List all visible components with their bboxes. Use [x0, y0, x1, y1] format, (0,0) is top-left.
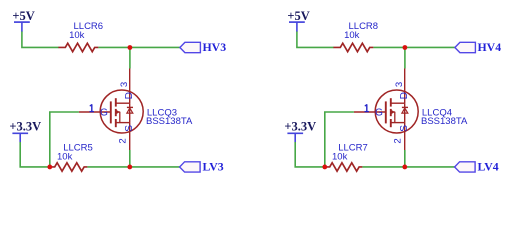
label LLCR5 [63, 142, 93, 153]
label LLCR7 [338, 142, 368, 153]
svg-text:+3.3V: +3.3V [284, 120, 316, 134]
pin name S of LLCQ3 [124, 125, 135, 132]
value 10k (LLCR5) [57, 152, 73, 163]
value 10k (LLCR7) [332, 152, 348, 163]
power symbol +5V (LLCQ4 drain pull-up) [287, 9, 309, 32]
label LLCQ3 [147, 107, 177, 118]
pin name S of LLCQ4 [399, 125, 410, 132]
junction node LV3 [127, 165, 132, 170]
junction node LV4 [402, 165, 407, 170]
label LLCR6 [74, 21, 104, 32]
pin name D of LLCQ4 [399, 92, 410, 99]
svg-text:10k: 10k [69, 30, 85, 41]
resistor LLCR8 [333, 43, 373, 51]
svg-text:2: 2 [117, 138, 128, 143]
svg-text:3: 3 [119, 82, 130, 87]
net flag LV3 [180, 162, 201, 172]
svg-text:S: S [399, 125, 410, 132]
wire +3.3V to gate branch of LLCQ3 [20, 142, 50, 167]
svg-text:HV4: HV4 [478, 40, 502, 54]
wire node HV3 to LLCQ3 drain [129, 48, 131, 69]
wire node HV4 to flag HV4 [405, 46, 455, 48]
value 10k (LLCR8) [344, 30, 360, 41]
junction node HV4 [403, 45, 408, 50]
wire node LV3 to flag LV3 [130, 166, 180, 168]
pin name D of LLCQ3 [124, 92, 135, 99]
wire LLCR7 to node LV4 [362, 166, 404, 168]
svg-text:LV4: LV4 [478, 160, 499, 174]
wire node HV4 to LLCQ4 drain [404, 48, 406, 69]
net label LV4 [478, 160, 499, 174]
svg-text:S: S [124, 125, 135, 132]
wire LLCR8 to node HV4 [373, 46, 405, 48]
wire LLCR5 to node LV3 [87, 166, 129, 168]
svg-text:10k: 10k [332, 152, 348, 163]
transistor LLCQ4 BSS138TA [354, 69, 418, 151]
label LLCQ4 [422, 107, 452, 118]
pin 1 (gate) of LLCQ4 [365, 104, 369, 111]
svg-text:3: 3 [394, 82, 405, 87]
junction node HV3 [127, 45, 132, 50]
svg-text:+5V: +5V [12, 9, 34, 23]
net flag HV3 [180, 42, 201, 52]
wire gate branch to LLCQ3 gate [50, 112, 79, 167]
net flag HV4 [455, 42, 476, 52]
svg-text:D: D [399, 92, 410, 99]
wire +5V to LLCR6 [22, 32, 59, 48]
resistor LLCR6 [58, 43, 98, 51]
svg-text:+3.3V: +3.3V [9, 120, 41, 134]
pin name G of LLCQ3 [100, 107, 108, 118]
svg-text:10k: 10k [57, 152, 73, 163]
wire LLCQ3 source to node LV3 [129, 150, 131, 167]
power symbol +3.3V (LLCQ3 gate pull-up) [9, 120, 41, 143]
resistor LLCR7 [325, 163, 362, 171]
net flag LV4 [455, 162, 476, 172]
svg-text:D: D [124, 92, 135, 99]
power symbol +5V (LLCQ3 drain pull-up) [12, 9, 34, 32]
wire gate branch to LLCQ4 gate [325, 112, 354, 167]
pin 2 (source) of LLCQ4 [392, 138, 403, 143]
svg-text:+5V: +5V [287, 9, 309, 23]
svg-text:BSS138TA: BSS138TA [421, 116, 468, 127]
transistor LLCQ3 BSS138TA [79, 69, 143, 151]
wire +5V to LLCR8 [297, 32, 334, 48]
svg-text:G: G [100, 107, 108, 118]
svg-text:LV3: LV3 [203, 160, 224, 174]
svg-text:G: G [375, 107, 383, 118]
pin name G of LLCQ4 [375, 107, 383, 118]
net label HV4 [478, 40, 502, 54]
junction gate branch of LLCQ4 [322, 165, 327, 170]
resistor LLCR5 [50, 163, 87, 171]
svg-text:10k: 10k [344, 30, 360, 41]
pin 3 (drain) of LLCQ4 [394, 82, 405, 87]
pin 2 (source) of LLCQ3 [117, 138, 128, 143]
wire LLCR6 to node HV3 [98, 46, 129, 48]
wire node HV3 to flag HV3 [130, 46, 180, 48]
label LLCR8 [349, 21, 379, 32]
junction gate branch of LLCQ3 [47, 165, 52, 170]
value 10k (LLCR6) [69, 30, 85, 41]
pin 3 (drain) of LLCQ3 [119, 82, 130, 87]
power symbol +3.3V (LLCQ4 gate pull-up) [284, 120, 316, 143]
wire LLCQ4 source to node LV4 [404, 150, 406, 167]
svg-text:2: 2 [392, 138, 403, 143]
net label LV3 [203, 160, 224, 174]
svg-text:BSS138TA: BSS138TA [146, 116, 193, 127]
pin 1 (gate) of LLCQ3 [90, 104, 94, 111]
net label HV3 [203, 40, 227, 54]
wire node LV4 to flag LV4 [405, 166, 455, 168]
wire +3.3V to gate branch of LLCQ4 [295, 142, 325, 167]
value BSS138TA (LLCQ4) [421, 116, 468, 127]
svg-text:HV3: HV3 [203, 40, 227, 54]
value BSS138TA (LLCQ3) [146, 116, 193, 127]
